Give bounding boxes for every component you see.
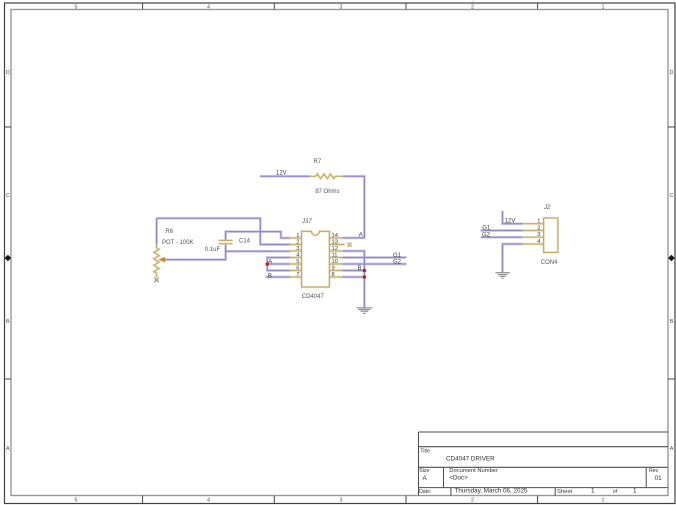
junction dot pins 4-5-6 bracket (266, 262, 270, 266)
svg-text:3: 3 (340, 497, 343, 503)
svg-text:0.1uF: 0.1uF (205, 247, 221, 253)
svg-text:R6: R6 (165, 229, 173, 235)
svg-text:Sheet: Sheet (557, 489, 573, 495)
svg-text:2: 2 (471, 4, 474, 10)
svg-text:5: 5 (75, 497, 78, 503)
svg-text:13: 13 (332, 239, 338, 245)
svg-text:1: 1 (633, 488, 637, 495)
svg-text:10: 10 (332, 259, 338, 265)
svg-text:2: 2 (471, 497, 474, 503)
svg-text:POT - 100K: POT - 100K (162, 240, 194, 246)
svg-text:B: B (670, 319, 674, 325)
svg-text:CON4: CON4 (541, 260, 558, 266)
svg-text:C: C (6, 193, 10, 199)
svg-text:A: A (359, 232, 363, 238)
R6 wiper arrow (159, 257, 165, 261)
svg-text:C14: C14 (239, 239, 251, 245)
svg-text:3: 3 (296, 246, 299, 252)
svg-text:Document Number: Document Number (449, 468, 498, 474)
svg-text:B: B (6, 319, 10, 325)
svg-text:G2: G2 (393, 260, 402, 266)
svg-text:Thursday, March 06, 2025: Thursday, March 06, 2025 (455, 488, 529, 495)
R6 bottom no-connect X (154, 278, 159, 283)
junction dot pin 8 (363, 275, 367, 279)
gold core (154, 174, 544, 278)
wire halos (157, 176, 523, 307)
svg-text:Date:: Date: (419, 489, 431, 495)
ground symbol (IC side) (356, 308, 372, 314)
IC left pin numbers 1-7 (296, 233, 300, 278)
svg-text:3: 3 (537, 232, 540, 238)
svg-text:7: 7 (296, 272, 299, 278)
svg-text:14: 14 (332, 233, 339, 239)
junction dot pin 9 (363, 269, 367, 273)
svg-text:6: 6 (296, 265, 299, 271)
svg-text:<Doc>: <Doc> (449, 474, 468, 481)
IC U1 CD4047 (J37) body (302, 231, 330, 287)
svg-text:J37: J37 (301, 219, 312, 225)
title block (419, 432, 669, 496)
svg-text:Title: Title (420, 448, 430, 454)
svg-text:9: 9 (332, 265, 335, 271)
svg-text:A: A (670, 446, 674, 452)
svg-text:87 Ohms: 87 Ohms (315, 189, 339, 195)
svg-text:1: 1 (537, 219, 540, 225)
svg-text:Rev: Rev (649, 468, 659, 474)
IC right pin numbers 14-8 (332, 233, 339, 278)
svg-text:1: 1 (602, 4, 605, 10)
svg-text:4: 4 (207, 4, 210, 10)
svg-text:4: 4 (207, 497, 210, 503)
svg-text:D: D (670, 70, 674, 76)
svg-text:CD4047 DRIVER: CD4047 DRIVER (446, 455, 495, 462)
svg-text:C: C (670, 193, 674, 199)
svg-text:2: 2 (537, 225, 540, 231)
connector J2 (CON4) body (544, 218, 558, 252)
svg-text:Size: Size (419, 468, 429, 474)
svg-text:B: B (268, 273, 272, 279)
svg-text:R7: R7 (314, 159, 322, 165)
svg-text:of: of (613, 489, 618, 495)
svg-text:1: 1 (296, 233, 299, 239)
svg-text:8: 8 (332, 272, 335, 278)
svg-text:G1: G1 (482, 225, 491, 231)
gold halos (154, 174, 544, 278)
svg-text:12V: 12V (276, 171, 287, 177)
svg-text:12V: 12V (505, 219, 516, 225)
wires core (157, 176, 523, 307)
svg-text:A: A (268, 260, 272, 266)
svg-text:G2: G2 (482, 232, 491, 238)
svg-text:1: 1 (591, 488, 595, 495)
svg-text:B: B (358, 266, 362, 272)
svg-text:01: 01 (655, 475, 663, 482)
svg-text:12: 12 (332, 246, 338, 252)
svg-text:2: 2 (296, 239, 299, 245)
connector pin numbers 1-4 (537, 219, 541, 245)
svg-text:J2: J2 (543, 205, 551, 211)
svg-text:D: D (6, 70, 10, 76)
svg-text:CD4047: CD4047 (302, 294, 325, 300)
svg-text:11: 11 (332, 252, 338, 258)
svg-text:1: 1 (602, 497, 605, 503)
svg-text:G1: G1 (393, 253, 402, 259)
svg-text:5: 5 (75, 4, 78, 10)
ground symbol (connector side) (495, 273, 509, 279)
svg-text:5: 5 (296, 259, 299, 265)
svg-text:3: 3 (340, 4, 343, 10)
svg-text:A: A (6, 446, 10, 452)
